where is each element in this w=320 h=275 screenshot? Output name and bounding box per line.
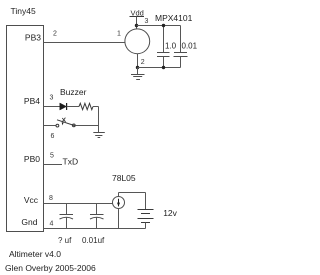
- ground buzzer bars: [93, 132, 105, 134]
- capacitor C4 stem bottom: [96, 218, 98, 229]
- capacitor C4 top plate: [90, 214, 104, 216]
- svg-text:6: 6: [51, 133, 55, 140]
- capacitor C3 top plate: [60, 214, 74, 216]
- capacitor C4 0.01uf stem top: [96, 204, 98, 215]
- ground sensor bars: [131, 74, 145, 76]
- svg-text:3: 3: [145, 18, 149, 25]
- regulator U3 arrow head: [117, 203, 120, 207]
- battery B1 plate long 1: [138, 209, 154, 211]
- wire battery top stem: [145, 193, 147, 210]
- svg-text:Gnd: Gnd: [21, 217, 37, 227]
- svg-text:0.01: 0.01: [182, 42, 198, 51]
- wire regulator top horizontal: [119, 192, 146, 194]
- switch S1 actuator cross: [62, 118, 65, 122]
- svg-text:PB3: PB3: [25, 33, 41, 43]
- wire PB3 to sensor pin1: [44, 42, 126, 44]
- capacitor C4 curved plate: [90, 217, 104, 219]
- wire PB0 TxD: [44, 164, 63, 166]
- capacitor C1 1.0 stem top: [163, 26, 165, 53]
- diode D1 (buzzer) triangle: [60, 103, 67, 110]
- svg-text:2: 2: [141, 59, 145, 66]
- capacitor C3 curved plate: [60, 217, 74, 219]
- junction dot sensor pin2: [136, 66, 139, 69]
- svg-text:Buzzer: Buzzer: [60, 87, 87, 97]
- svg-text:4: 4: [50, 221, 54, 228]
- IC U1 Tiny45 body: [7, 26, 44, 232]
- junction dot C1 bottom: [162, 66, 165, 69]
- svg-text:Glen Overby 2005-2006: Glen Overby 2005-2006: [5, 263, 96, 273]
- switch S1 actuator arrow: [62, 122, 64, 125]
- junction dot C1 top: [162, 24, 165, 27]
- svg-text:8: 8: [49, 195, 53, 202]
- capacitor C3 ?uf stem top: [66, 204, 68, 215]
- svg-text:1: 1: [117, 31, 121, 38]
- wire resistor to corner: [93, 106, 99, 108]
- svg-text:3: 3: [50, 95, 54, 102]
- wire switch to buzzer branch: [75, 125, 98, 127]
- svg-text:1.0: 1.0: [165, 42, 177, 51]
- power Vdd bar: [130, 16, 145, 18]
- capacitor C2 0.01 stem top: [180, 26, 182, 53]
- svg-text:Tiny45: Tiny45: [11, 6, 36, 16]
- svg-text:PB4: PB4: [24, 96, 40, 106]
- resistor R1 zigzag: [79, 103, 93, 109]
- battery B1 plate short 1: [141, 213, 150, 215]
- sensor U2 MPX4101 circle: [125, 29, 150, 54]
- wire Vdd rail: [137, 25, 181, 27]
- wire PB4 to diode: [44, 106, 61, 108]
- svg-text:0.01uf: 0.01uf: [82, 236, 105, 245]
- svg-text:Altimeter v4.0: Altimeter v4.0: [9, 249, 61, 259]
- svg-text:? uf: ? uf: [58, 236, 72, 245]
- wire regulator bottom stem: [118, 209, 120, 229]
- battery B1 plate short 2: [141, 222, 150, 224]
- wire pin6 to switch: [44, 125, 57, 127]
- wire Vcc rail: [44, 203, 113, 205]
- wire regulator top stem: [118, 193, 120, 197]
- diode D1 cathode bar: [66, 103, 68, 110]
- wire sensor bottom rail: [138, 67, 181, 69]
- wire Vdd stem: [136, 17, 138, 29]
- capacitor C1 plates: [157, 52, 170, 54]
- wire buzzer branch vertical: [98, 107, 100, 133]
- capacitor C2 stem bottom: [180, 57, 182, 68]
- junction dot Vdd node: [135, 24, 138, 27]
- wire diode to resistor: [67, 106, 79, 108]
- switch S1 lever: [57, 120, 75, 126]
- svg-text:Vcc: Vcc: [24, 195, 39, 205]
- switch S1 left contact: [56, 124, 59, 127]
- capacitor C3 stem bottom: [66, 218, 68, 229]
- capacitor C1 stem bottom: [163, 57, 165, 68]
- battery B1 plate long 2: [138, 218, 154, 220]
- svg-text:PB0: PB0: [24, 154, 40, 164]
- svg-text:5: 5: [50, 153, 54, 160]
- svg-text:MPX4101: MPX4101: [155, 13, 193, 23]
- wire battery bottom stem: [145, 223, 147, 229]
- wire sensor pin2 stem: [137, 54, 139, 68]
- regulator U3 arrow shaft: [118, 199, 120, 207]
- capacitor C2 plates: [174, 52, 187, 54]
- svg-text:12v: 12v: [163, 208, 177, 218]
- svg-text:78L05: 78L05: [112, 173, 136, 183]
- svg-text:TxD: TxD: [63, 157, 79, 167]
- ground sensor stem: [137, 68, 139, 75]
- svg-text:2: 2: [53, 31, 57, 38]
- switch S1 right contact: [72, 124, 75, 127]
- wire Gnd bottom rail: [44, 228, 146, 230]
- regulator U3 78L05 circle: [113, 197, 125, 209]
